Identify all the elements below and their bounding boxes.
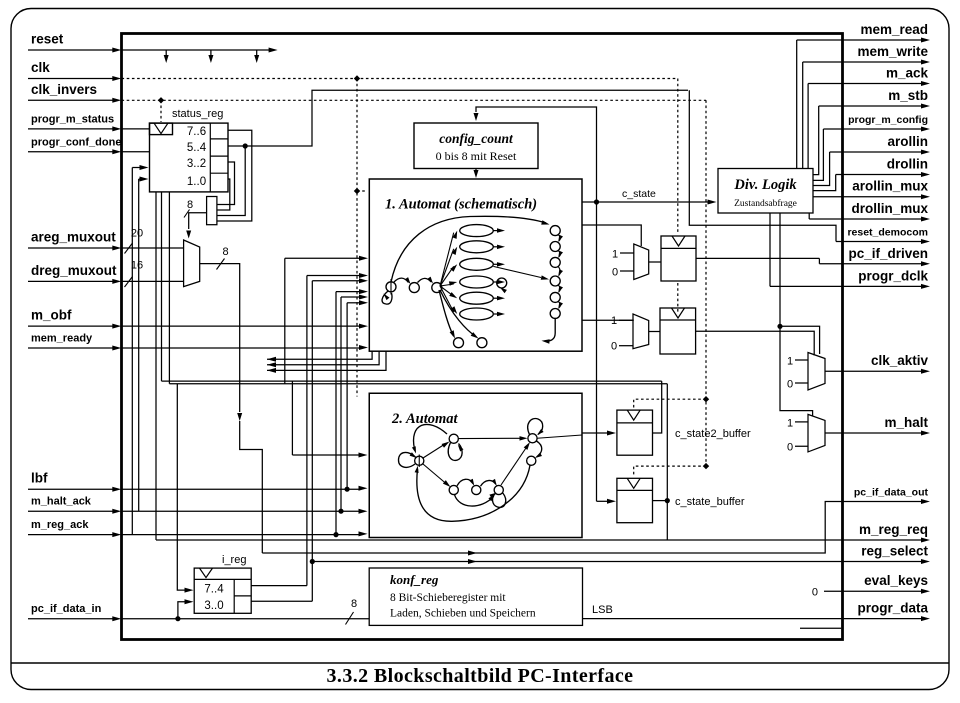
svg-text:pc_if_driven: pc_if_driven (848, 246, 928, 261)
svg-text:8 Bit-Schieberegister mit: 8 Bit-Schieberegister mit (390, 592, 506, 604)
svg-text:0 bis 8 mit Reset: 0 bis 8 mit Reset (436, 149, 517, 163)
svg-text:arollin: arollin (887, 134, 928, 149)
svg-text:Laden, Schieben und Speichern: Laden, Schieben und Speichern (390, 608, 536, 620)
svg-text:progr_m_status: progr_m_status (31, 113, 114, 125)
svg-text:1: 1 (787, 356, 793, 368)
svg-text:reg_select: reg_select (861, 544, 928, 559)
svg-text:m_obf: m_obf (31, 308, 72, 323)
svg-text:m_reg_ack: m_reg_ack (31, 519, 89, 531)
svg-text:drollin: drollin (887, 157, 928, 172)
svg-text:3..2: 3..2 (187, 158, 206, 170)
svg-text:Zustandsabfrage: Zustandsabfrage (734, 198, 797, 209)
svg-text:i_reg: i_reg (222, 554, 246, 566)
svg-text:0: 0 (812, 587, 818, 599)
svg-text:mem_write: mem_write (857, 44, 928, 59)
svg-text:c_state_buffer: c_state_buffer (675, 496, 745, 508)
svg-text:20: 20 (131, 228, 143, 240)
svg-text:reset_democom: reset_democom (847, 227, 928, 239)
svg-text:pc_if_data_in: pc_if_data_in (31, 603, 102, 615)
svg-text:LSB: LSB (592, 604, 613, 616)
svg-text:progr_data: progr_data (857, 601, 928, 616)
svg-text:0: 0 (787, 379, 793, 391)
svg-text:Div. Logik: Div. Logik (733, 177, 797, 193)
svg-text:drollin_mux: drollin_mux (851, 201, 928, 216)
svg-text:c_state: c_state (622, 188, 656, 200)
svg-text:areg_muxout: areg_muxout (31, 230, 116, 245)
svg-text:mem_ready: mem_ready (31, 333, 93, 345)
svg-text:3..0: 3..0 (204, 600, 223, 612)
svg-text:progr_conf_done: progr_conf_done (31, 136, 121, 148)
svg-text:progr_m_config: progr_m_config (848, 114, 928, 126)
svg-text:3.3.2 Blockschaltbild PC-Inter: 3.3.2 Blockschaltbild PC-Interface (327, 665, 634, 687)
svg-text:arollin_mux: arollin_mux (852, 179, 928, 194)
svg-text:clk_invers: clk_invers (31, 82, 97, 97)
svg-text:config_count: config_count (439, 131, 514, 146)
svg-text:m_ack: m_ack (886, 66, 929, 81)
svg-text:m_reg_req: m_reg_req (859, 522, 928, 537)
svg-text:m_stb: m_stb (888, 88, 928, 103)
svg-text:8: 8 (187, 199, 193, 211)
svg-text:pc_if_data_out: pc_if_data_out (854, 487, 929, 499)
svg-text:lbf: lbf (31, 471, 48, 486)
svg-text:8: 8 (351, 598, 357, 610)
svg-text:16: 16 (131, 260, 143, 272)
svg-text:0: 0 (787, 442, 793, 454)
svg-text:7..4: 7..4 (204, 584, 224, 596)
svg-text:reset: reset (31, 32, 64, 47)
svg-text:clk_aktiv: clk_aktiv (871, 353, 929, 368)
svg-text:c_state2_buffer: c_state2_buffer (675, 428, 751, 440)
svg-text:5..4: 5..4 (187, 142, 207, 154)
svg-text:status_reg: status_reg (172, 108, 223, 120)
svg-text:dreg_muxout: dreg_muxout (31, 263, 117, 278)
svg-text:0: 0 (612, 267, 618, 279)
svg-text:0: 0 (611, 341, 617, 353)
svg-text:1: 1 (612, 249, 618, 261)
svg-text:progr_dclk: progr_dclk (858, 268, 928, 283)
svg-text:8: 8 (222, 246, 228, 258)
svg-text:1. Automat (schematisch): 1. Automat (schematisch) (385, 197, 537, 213)
svg-text:1: 1 (787, 418, 793, 430)
svg-text:mem_read: mem_read (860, 22, 928, 37)
svg-text:m_halt_ack: m_halt_ack (31, 496, 92, 508)
svg-text:eval_keys: eval_keys (864, 573, 928, 588)
svg-text:m_halt: m_halt (884, 415, 928, 430)
svg-text:1..0: 1..0 (187, 176, 206, 188)
svg-text:1: 1 (611, 315, 617, 327)
svg-text:konf_reg: konf_reg (390, 572, 439, 587)
svg-text:clk: clk (31, 60, 50, 75)
svg-text:7..6: 7..6 (187, 126, 206, 138)
